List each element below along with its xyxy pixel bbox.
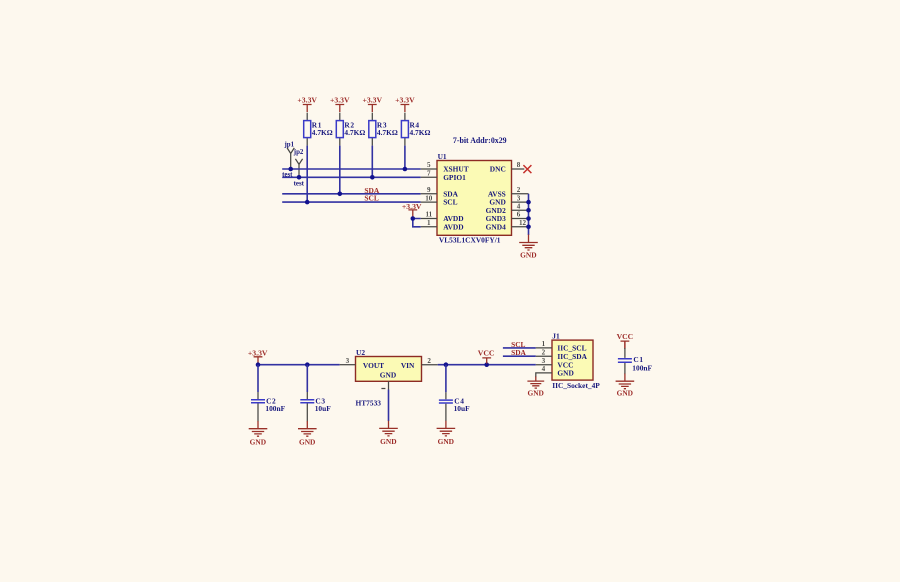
wire AVSS/GND bus down — [528, 194, 530, 235]
svg-text:GND: GND — [299, 438, 315, 447]
svg-text:3: 3 — [346, 357, 350, 365]
svg-text:10uF: 10uF — [315, 404, 332, 413]
power flag VCC rail — [478, 348, 495, 363]
svg-text:12: 12 — [519, 219, 527, 227]
svg-text:9: 9 — [427, 186, 431, 194]
svg-text:4.7KΩ: 4.7KΩ — [377, 128, 398, 137]
wire GPIO1 net — [282, 176, 421, 178]
pin 1 GND of U2 — [380, 371, 396, 390]
svg-text:jp1: jp1 — [284, 141, 295, 148]
wire SCL net — [282, 201, 421, 203]
junction rail at VCC flag — [484, 362, 489, 367]
pin 8 DNC — [490, 161, 525, 173]
power flag +3.3V at R1 — [297, 96, 317, 112]
junction jp1/XSHUT — [288, 167, 293, 172]
pin 1 AVDD — [421, 219, 464, 231]
pin 6 GND3 — [486, 211, 529, 223]
svg-text:7: 7 — [427, 170, 431, 178]
svg-text:8: 8 — [517, 161, 521, 169]
svg-text:5: 5 — [427, 161, 431, 169]
svg-text:+3.3V: +3.3V — [297, 96, 317, 105]
svg-text:U2: U2 — [356, 348, 365, 357]
regulator U2 body — [356, 357, 422, 382]
pin 4 GND2 — [486, 202, 529, 214]
svg-text:4: 4 — [542, 365, 546, 373]
svg-text:+3.3V: +3.3V — [363, 96, 383, 105]
power flag +3.3V at R2 — [330, 96, 350, 112]
pin 3 GND — [489, 194, 528, 206]
svg-text:1: 1 — [542, 340, 546, 348]
power flag +3.3V bottom rail — [248, 348, 268, 363]
svg-text:VOUT: VOUT — [363, 361, 384, 370]
power flag VCC at C1 — [617, 332, 634, 349]
svg-text:GND: GND — [520, 251, 536, 260]
svg-text:2: 2 — [517, 186, 521, 194]
svg-text:4: 4 — [517, 202, 521, 210]
ground symbol C3 — [298, 421, 317, 447]
svg-text:GND: GND — [380, 437, 396, 446]
svg-text:GND: GND — [380, 371, 396, 380]
junction jp2/GPIO1 — [297, 175, 302, 180]
junction R2/SDA — [338, 192, 343, 197]
svg-text:4.7KΩ: 4.7KΩ — [410, 128, 431, 137]
svg-text:100nF: 100nF — [632, 364, 652, 373]
svg-text:4.7KΩ: 4.7KΩ — [312, 128, 333, 137]
pin 1 IIC_SCL — [536, 340, 587, 352]
power flag +3.3V at R4 — [395, 96, 415, 112]
jumper jp1 — [284, 141, 295, 169]
capacitor C4 — [439, 365, 453, 421]
pin 2 AVSS — [488, 186, 529, 198]
svg-text:1: 1 — [427, 219, 431, 227]
svg-text:AVDD: AVDD — [443, 222, 463, 231]
capacitor C3 — [300, 365, 314, 422]
ground symbol C1 — [616, 374, 635, 398]
pin 12 GND4 — [486, 219, 529, 231]
junction rail at C2 — [256, 362, 261, 367]
resistor R1 — [304, 113, 311, 146]
pin 2 VIN — [401, 357, 438, 370]
svg-text:GND: GND — [438, 437, 454, 446]
svg-text:SCL: SCL — [443, 198, 457, 207]
svg-text:VIN: VIN — [401, 361, 415, 370]
svg-text:10uF: 10uF — [454, 404, 471, 413]
svg-text:GND: GND — [617, 388, 633, 397]
pin 3 VCC of J1 — [536, 357, 574, 369]
svg-text:6: 6 — [517, 211, 521, 219]
wire +3.3V to AVDD pins — [413, 217, 421, 226]
svg-text:GND: GND — [527, 388, 543, 397]
wire U2 GND down — [388, 390, 390, 422]
pin 7 GPIO1 — [421, 170, 466, 182]
svg-text:VL53L1CXV0FY/1: VL53L1CXV0FY/1 — [439, 236, 501, 245]
ground symbol J1 — [527, 377, 544, 398]
svg-text:10: 10 — [425, 194, 433, 202]
svg-text:test: test — [294, 181, 305, 188]
no-connect X on DNC — [523, 165, 531, 173]
svg-text:3: 3 — [517, 194, 521, 202]
junction GND2 pin4 — [526, 208, 531, 213]
junction AVDD feed — [411, 216, 416, 221]
junction GND3 pin6 — [526, 216, 531, 221]
svg-text:IIC_Socket_4P: IIC_Socket_4P — [552, 381, 600, 390]
svg-text:SDA: SDA — [511, 348, 526, 357]
wire R3 to GPIO1 net — [371, 146, 373, 178]
svg-text:7-bit Addr:0x29: 7-bit Addr:0x29 — [453, 136, 507, 145]
op IC U1 body — [437, 161, 512, 236]
ground symbol U2 — [379, 421, 398, 447]
wire R1 to SCL net — [306, 146, 308, 203]
pin 5 XSHUT — [421, 161, 469, 173]
pin 2 IIC_SDA — [536, 348, 588, 360]
wire +3.3V rail to U2 VOUT — [258, 364, 340, 366]
svg-text:3: 3 — [542, 357, 546, 365]
resistor R3 — [369, 113, 376, 146]
wire R4 to XSHUT net — [404, 146, 406, 169]
svg-text:+3.3V: +3.3V — [395, 96, 415, 105]
svg-text:jp2: jp2 — [293, 149, 304, 156]
svg-text:GND: GND — [557, 369, 573, 378]
resistor R4 — [401, 113, 408, 146]
ground symbol U1 — [519, 235, 538, 260]
wire XSHUT net — [282, 168, 421, 170]
junction GND pin3 — [526, 200, 531, 205]
power flag +3.3V at AVDD — [402, 202, 422, 217]
junction R1/SCL — [305, 200, 310, 205]
svg-text:J1: J1 — [552, 332, 560, 341]
power flag +3.3V at R3 — [363, 96, 383, 112]
resistor R2 — [336, 113, 343, 146]
ground symbol C4 — [437, 421, 456, 447]
svg-text:DNC: DNC — [490, 165, 506, 174]
pin 10 SCL — [421, 194, 458, 206]
ground symbol C2 — [249, 421, 268, 447]
wire SCL to J1 — [503, 347, 536, 349]
wire R2 to SDA net — [339, 146, 341, 194]
svg-text:SCL: SCL — [364, 193, 378, 202]
svg-text:+3.3V: +3.3V — [248, 348, 268, 357]
svg-text:100nF: 100nF — [265, 404, 285, 413]
pin 4 GND of J1 — [536, 365, 574, 377]
svg-text:2: 2 — [427, 357, 431, 365]
wire SDA to J1 — [503, 355, 536, 357]
svg-text:VCC: VCC — [478, 348, 495, 357]
pin 11 AVDD — [421, 211, 464, 223]
svg-text:+3.3V: +3.3V — [330, 96, 350, 105]
junction rail at C3 — [305, 362, 310, 367]
pin 3 VOUT — [340, 357, 384, 370]
svg-text:GPIO1: GPIO1 — [443, 173, 466, 182]
junction R3/GPIO1 — [370, 175, 375, 180]
capacitor C2 — [251, 365, 265, 422]
svg-text:U1: U1 — [438, 152, 447, 161]
svg-text:HT7533: HT7533 — [356, 398, 382, 407]
svg-text:GND: GND — [250, 438, 266, 447]
connector J1 body — [552, 340, 593, 380]
wire SDA net — [282, 193, 421, 195]
wire VIN rail to J1 VCC — [438, 364, 536, 366]
pin 9 SDA — [421, 186, 459, 198]
capacitor C1 — [618, 341, 632, 374]
junction rail at C4 — [444, 362, 449, 367]
svg-text:2: 2 — [542, 348, 546, 356]
svg-text:VCC: VCC — [617, 332, 634, 341]
svg-text:4.7KΩ: 4.7KΩ — [344, 128, 365, 137]
svg-text:GND4: GND4 — [486, 222, 506, 231]
junction R4/XSHUT — [403, 167, 408, 172]
junction GND4 pin12 — [526, 225, 531, 230]
svg-text:11: 11 — [425, 211, 432, 219]
jumper jp2 — [293, 149, 304, 177]
